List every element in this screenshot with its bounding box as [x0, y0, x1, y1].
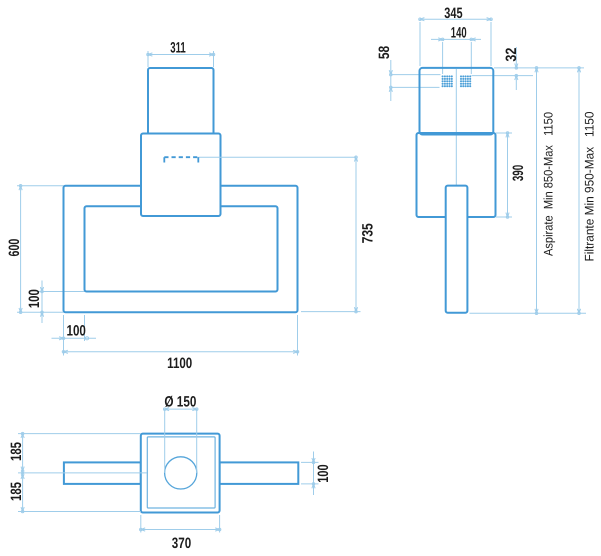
svg-text:Filtrante Min 950-Max 1150: Filtrante Min 950-Max 1150	[583, 111, 597, 261]
svg-text:100: 100	[315, 464, 332, 482]
svg-text:345: 345	[444, 5, 462, 22]
svg-text:370: 370	[172, 535, 191, 552]
svg-text:185: 185	[8, 482, 25, 501]
svg-text:32: 32	[503, 48, 520, 62]
svg-text:600: 600	[6, 239, 23, 257]
svg-text:100: 100	[26, 289, 43, 308]
svg-text:1100: 1100	[167, 355, 192, 372]
svg-text:140: 140	[451, 25, 467, 42]
svg-text:Ø 150: Ø 150	[164, 394, 196, 411]
svg-text:Aspirate Min 850-Max 1150: Aspirate Min 850-Max 1150	[542, 112, 556, 256]
svg-text:185: 185	[8, 442, 25, 461]
svg-text:311: 311	[170, 40, 186, 57]
svg-text:100: 100	[67, 322, 86, 339]
svg-text:390: 390	[510, 165, 527, 181]
svg-text:58: 58	[376, 46, 393, 59]
svg-text:735: 735	[359, 223, 376, 243]
